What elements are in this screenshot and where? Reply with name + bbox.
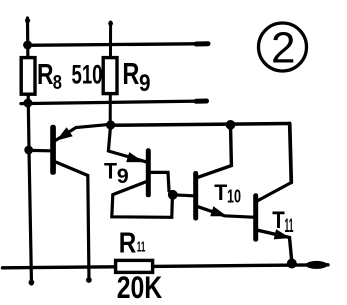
svg-text:9: 9 <box>139 70 151 97</box>
svg-text:2: 2 <box>271 24 295 73</box>
svg-text:R: R <box>122 57 139 91</box>
label T11 <box>272 207 293 237</box>
svg-text:11: 11 <box>137 239 146 256</box>
junction: T9 base-collector tie / T10 base <box>168 190 178 200</box>
junction: T11 emitter / bottom rail <box>287 259 297 269</box>
junction: T10 collector on bus <box>226 120 236 130</box>
transistor T10 base bar <box>193 171 198 221</box>
resistor R11 <box>116 260 153 272</box>
svg-text:R: R <box>119 227 137 259</box>
wire: top rail 2 <box>21 101 207 104</box>
resistor R8 <box>21 58 35 95</box>
T10 collector wire (up to bus junction) <box>198 125 231 177</box>
T9 emitter wire with arrow (from node A) <box>108 125 146 162</box>
svg-text:T: T <box>214 180 227 205</box>
T10 emitter wire with arrow (to T11 base) <box>198 206 253 217</box>
svg-text:T: T <box>272 207 285 234</box>
T9 base wire (right then down to tie point) <box>151 172 173 194</box>
circled figure number 2 <box>259 23 307 73</box>
wire: left supply rail vertical (with top stub and bottom overshoot) <box>25 18 34 286</box>
label R9 <box>122 57 150 97</box>
wire: tie point to T10 base <box>173 195 194 196</box>
svg-text:510: 510 <box>72 60 103 90</box>
wire: top rail 1 <box>26 44 209 46</box>
junction: left rail / top rail 2 <box>23 99 32 108</box>
left transistor collector wire (down to bottom rail area) <box>56 162 92 283</box>
T9 collector wire (loop down and around to base tie point) <box>112 182 173 218</box>
label R8 <box>37 59 62 94</box>
wire: bottom rail (with heavy right end) <box>3 261 329 269</box>
svg-text:8: 8 <box>53 71 62 94</box>
wire: left transistor base <box>29 149 50 153</box>
transistor T9 base bar <box>146 148 151 197</box>
label T10 <box>214 180 241 207</box>
wire: R9 top lead with stub blob <box>108 21 113 126</box>
svg-text:11: 11 <box>285 216 294 237</box>
wire: bus right vertical down <box>290 124 292 183</box>
T11 collector wire (up-right to bus vertical) <box>258 183 291 201</box>
node A junction: R9 lead / emitters / collector bus <box>106 120 115 129</box>
svg-text:T: T <box>104 159 118 184</box>
junction: left rail / top rail 1 <box>23 41 32 50</box>
label T9 <box>104 159 129 189</box>
svg-text:10: 10 <box>227 187 241 207</box>
transistor VT-left base bar <box>50 125 56 175</box>
resistor R9 <box>103 58 117 94</box>
left transistor emitter wire with arrow (to node A) <box>56 124 111 140</box>
junction: left transistor base / left rail <box>24 146 33 155</box>
wire: collector bus from node A to right <box>111 124 290 126</box>
transistor T11 base bar <box>253 193 258 241</box>
label R11 <box>119 227 146 259</box>
svg-text:R: R <box>37 59 54 91</box>
T11 emitter wire with arrow (down to bottom rail) <box>258 229 292 262</box>
svg-text:20K: 20K <box>117 269 163 305</box>
svg-text:9: 9 <box>117 165 129 188</box>
